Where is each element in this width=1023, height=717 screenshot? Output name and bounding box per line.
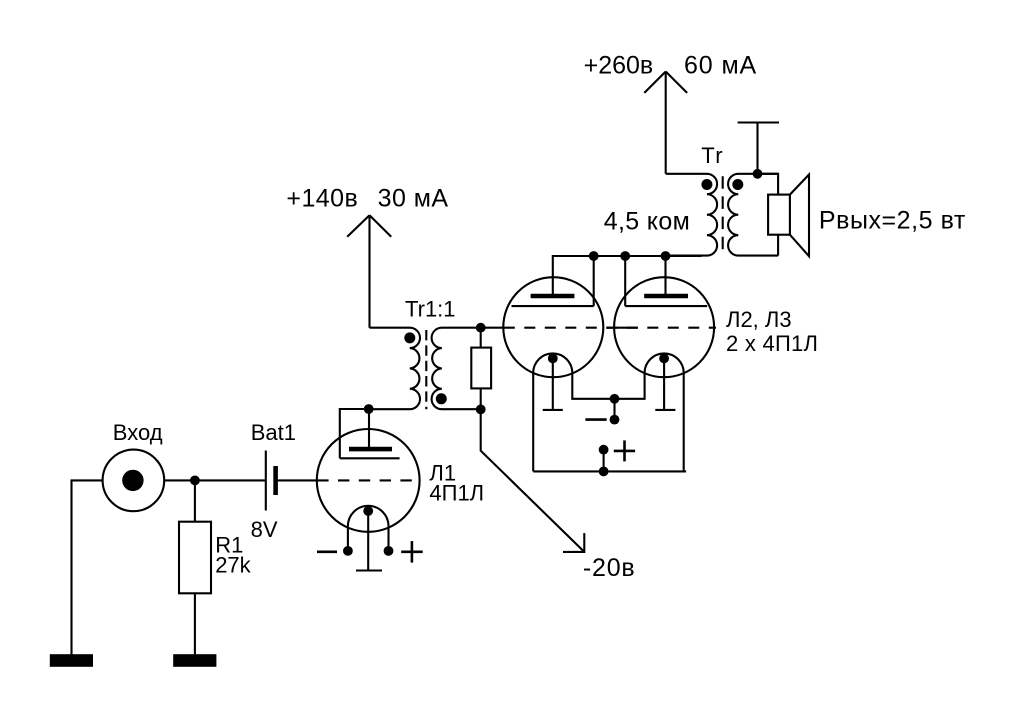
svg-text:27k: 27k [215, 553, 251, 578]
wire resistor top lead [480, 328, 482, 348]
tube Л3 screen grid [625, 305, 707, 307]
node grid/resistor top [476, 323, 486, 333]
speaker BA1 horn [790, 175, 809, 257]
svg-text:2 х 4П1Л: 2 х 4П1Л [726, 331, 818, 356]
ground (Л2 filament center tap) [552, 358, 554, 410]
tube Л1 envelope [317, 429, 420, 532]
ground (Л1 filament center tap) [367, 511, 369, 571]
ground (input) [50, 654, 93, 667]
plus sign (output filament) [614, 450, 635, 453]
transformer Tr primary winding [666, 174, 718, 256]
tube Л2 screen grid [512, 305, 594, 307]
node filament center [363, 506, 373, 516]
arrowhead -20в [563, 533, 584, 552]
minus sign (Л1 filament) [317, 550, 337, 553]
wire Tr1:1 secondary top to output grids [481, 327, 504, 329]
connector XS1 Вход [103, 450, 165, 512]
svg-text:Л2, Л3: Л2, Л3 [726, 307, 792, 332]
transformer Tr core [722, 176, 724, 253]
node bus/screen Л3 [620, 251, 630, 261]
node filament plus terminal [384, 546, 394, 556]
tube Л1 filament left leg [347, 526, 349, 551]
phase dot Tr1:1 secondary [436, 393, 447, 404]
tube Л2/Л3 control grids (dashed) [504, 327, 716, 329]
tube Л2 screen lead [593, 256, 595, 306]
ground (Л3 filament center tap) [663, 358, 665, 410]
svg-text:Вход: Вход [113, 420, 163, 445]
svg-text:Bat1: Bat1 [251, 420, 296, 445]
node Л2 filament center [548, 354, 558, 364]
resistor R1 [179, 522, 211, 594]
tube Л2 filament left leg [532, 373, 534, 471]
node anode/screen/primary junction [364, 404, 374, 414]
ground (R1) [173, 654, 216, 667]
phase dot Tr secondary [732, 179, 743, 190]
svg-text:60 мА: 60 мА [684, 52, 757, 80]
tube Л3 anode lead [664, 256, 666, 296]
tube Л2 anode lead [553, 256, 594, 296]
node junction input/R1 [190, 476, 200, 486]
tube Л3 filament right leg [683, 373, 685, 471]
wire anode bus [594, 255, 702, 257]
tube Л2 anode [531, 294, 575, 299]
tube Л2 filament right leg [572, 373, 614, 399]
wire R1 to ground [194, 593, 196, 654]
battery Bat1 short plate [273, 466, 278, 495]
node filament minus terminal [343, 546, 353, 556]
supply +140в arrow [368, 215, 370, 328]
tube Л1 filament arc [348, 506, 389, 526]
svg-text:+260в: +260в [584, 52, 654, 80]
phase dot Tr1:1 primary [404, 332, 415, 343]
tube Л1 anode [349, 447, 392, 452]
svg-text:8V: 8V [251, 517, 278, 542]
tube Л1 anode lead [368, 409, 370, 449]
wire to -20в bias [481, 409, 585, 552]
svg-text:4П1Л: 4П1Л [429, 481, 484, 506]
node resistor bottom junction [476, 405, 486, 415]
node bus/anode Л3 [661, 251, 671, 261]
node bus/screen Л2 [589, 251, 599, 261]
plus sign (Л1 filament) [401, 550, 423, 553]
node secondary/ground junction [753, 169, 763, 179]
transformer Tr1:1 core [425, 330, 427, 409]
node filament inner junction [610, 394, 620, 404]
transformer Tr1:1 secondary winding [432, 328, 481, 410]
svg-text:4,5 ком: 4,5 ком [604, 207, 690, 235]
speaker BA1 driver [768, 195, 790, 235]
wire Tr secondary top to speaker [758, 174, 779, 195]
transformer Tr1:1 primary winding [369, 328, 420, 410]
tube Л3 filament left leg [615, 373, 645, 399]
wire battery to tube Л1 grid [276, 479, 317, 481]
wire screen grid hook [340, 409, 369, 458]
svg-text:Tr: Tr [701, 143, 724, 168]
tube Л2 envelope [503, 277, 603, 377]
supply +260в arrow [665, 72, 667, 174]
tube Л3 screen lead [624, 256, 626, 306]
wire connector to battery [164, 479, 266, 481]
resistor grid leak [471, 348, 491, 389]
connector center pin [122, 470, 143, 491]
minus sign (output filament) [585, 418, 606, 421]
node Л3 filament center [659, 354, 669, 364]
svg-text:Tr1:1: Tr1:1 [405, 297, 456, 322]
tube Л3 envelope [614, 277, 714, 377]
wire input left branch [72, 480, 103, 654]
wire filament bottom bus [533, 470, 686, 472]
wire plus stub [603, 450, 605, 472]
svg-text:30 мА: 30 мА [378, 184, 449, 212]
wire Tr secondary bottom to speaker [777, 235, 779, 256]
svg-text:-20в: -20в [583, 554, 636, 582]
wire grids tie [606, 327, 638, 329]
wire minus stub [613, 399, 615, 420]
node plus/bus junction [599, 467, 609, 477]
transformer Tr secondary winding [728, 174, 778, 256]
node minus terminal [610, 415, 620, 425]
svg-text:+140в: +140в [286, 184, 358, 212]
tube Л1 filament right leg [387, 526, 389, 551]
tube Л2 filament arc [533, 353, 572, 373]
tube Л3 anode [644, 294, 688, 299]
tube Л1 control grid (dashed) [317, 479, 419, 481]
ground (speaker secondary) [756, 123, 758, 174]
battery Bat1 long plate [265, 451, 267, 511]
tube Л3 filament arc [645, 353, 684, 373]
node plus terminal [599, 445, 609, 455]
svg-text:Рвых=2,5 вт: Рвых=2,5 вт [819, 206, 966, 234]
phase dot Tr primary [701, 179, 712, 190]
wire junction to R1 [194, 480, 196, 521]
tube Л1 screen grid [340, 457, 400, 459]
wire resistor bottom lead [480, 388, 482, 409]
